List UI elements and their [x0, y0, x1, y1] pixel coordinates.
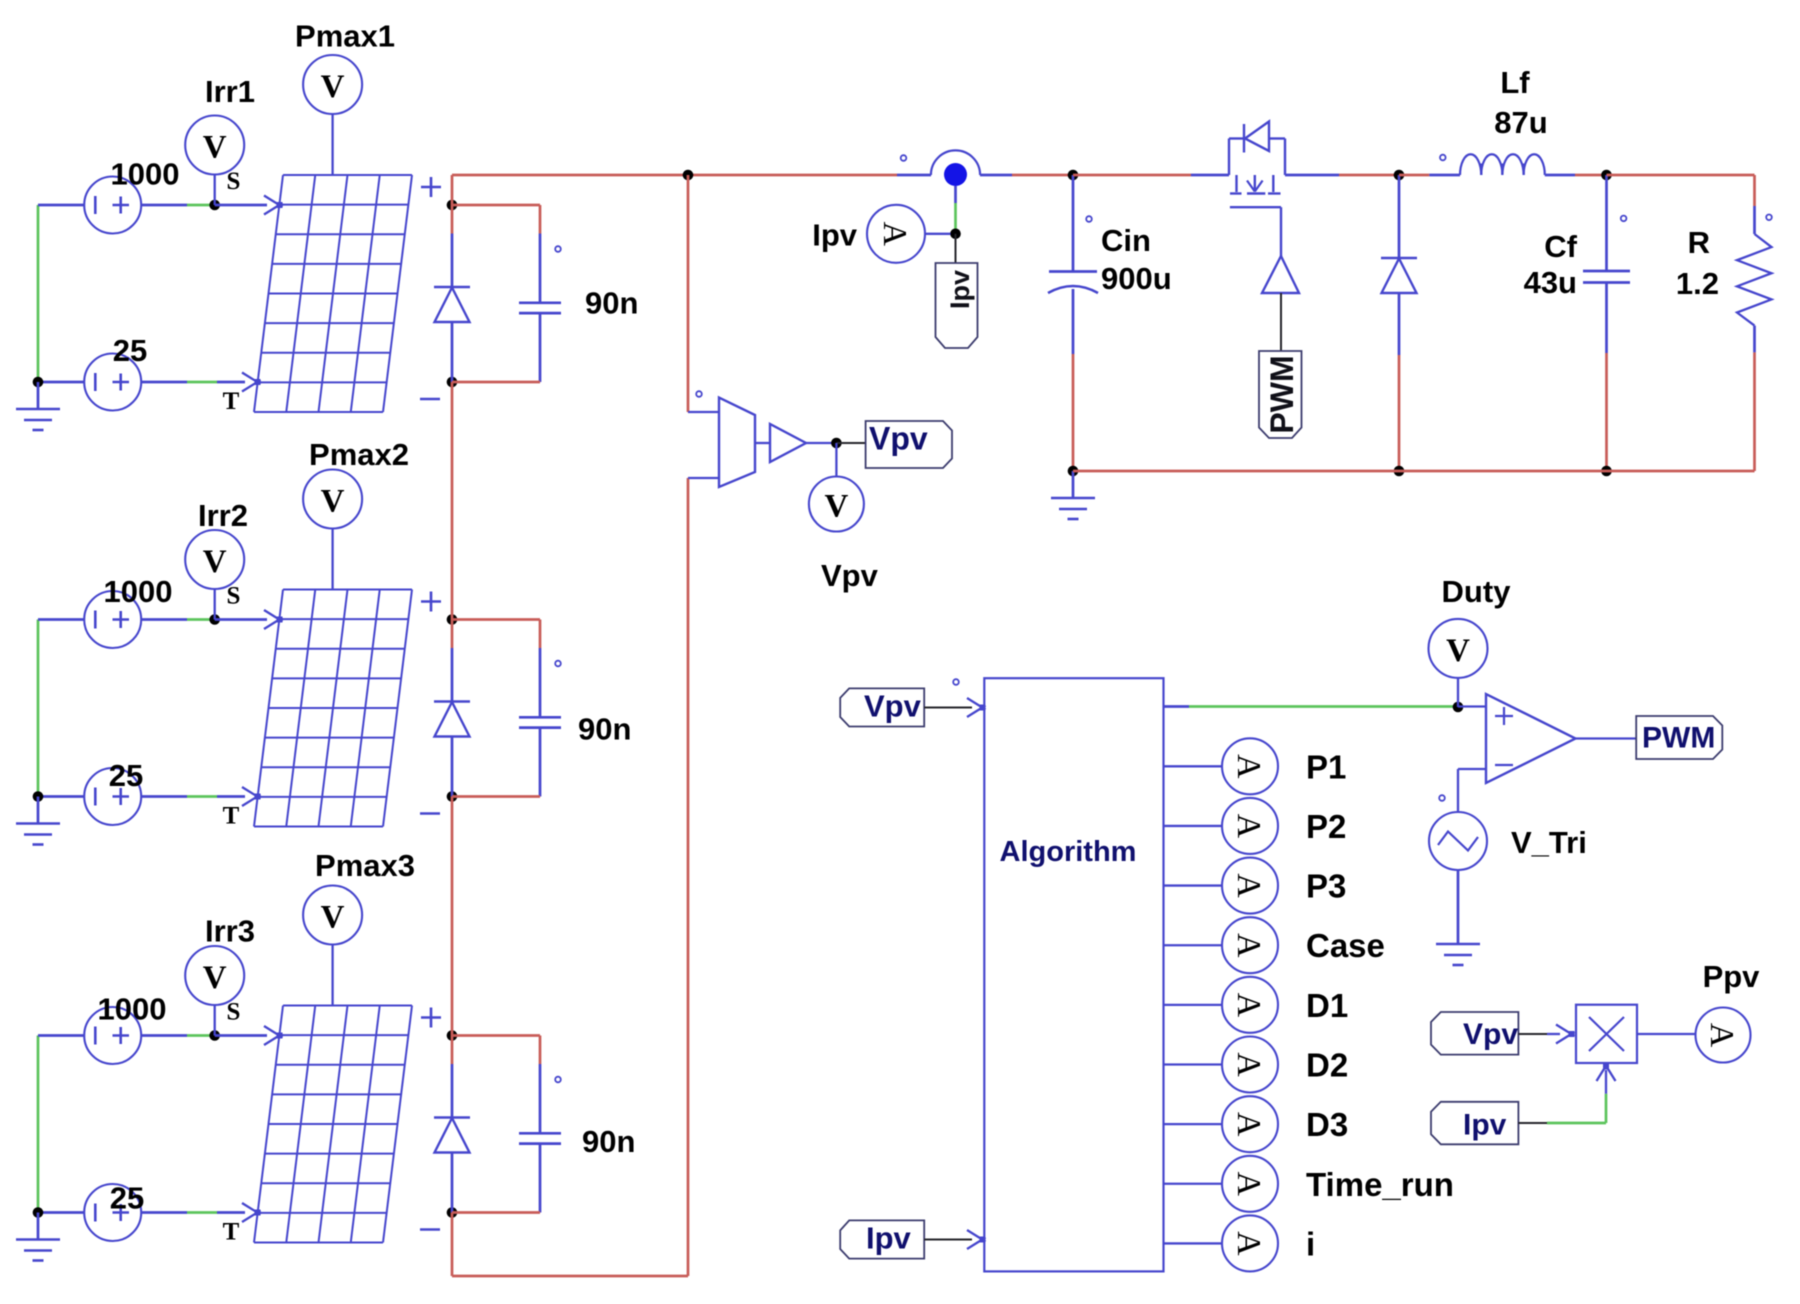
svg-text:Case: Case — [1306, 927, 1385, 964]
label Lf — [1500, 65, 1530, 100]
value label 900u — [1101, 261, 1172, 296]
net label tag Vpv (sense) — [866, 421, 952, 469]
label Pmax1 — [295, 19, 395, 54]
input tag Ipv (to Algorithm) — [840, 1220, 924, 1258]
wire (bus junction down to Vpv probe) — [687, 175, 690, 412]
pin arrow S input (PV2) — [264, 610, 283, 629]
svg-text:Cin: Cin — [1101, 223, 1151, 258]
label Ipv (ammeter) — [812, 218, 858, 253]
wire (source to node S, PV1) — [141, 204, 215, 207]
svg-text:Ipv: Ipv — [1463, 1109, 1507, 1142]
voltage probe Vpv (differential) — [688, 398, 770, 487]
wire (sensor to Cin node) — [980, 174, 1073, 177]
svg-text:Pmax2: Pmax2 — [309, 437, 409, 472]
svg-text:900u: 900u — [1101, 261, 1172, 296]
svg-text:90n: 90n — [585, 286, 638, 321]
wire (source to panel T, PV1) — [141, 381, 245, 384]
pin arrow multiplier in — [1556, 1025, 1575, 1044]
svg-text:Vpv: Vpv — [869, 421, 928, 457]
svg-text:A: A — [1703, 1023, 1740, 1048]
wire (dc bus: PV string to sensor) — [452, 174, 931, 177]
wire (Ipv tag to multiplier) — [1518, 1070, 1606, 1123]
voltmeter Irr1 — [185, 116, 244, 206]
freewheeling diode D1 — [1381, 175, 1417, 471]
wire (sensor tap down) — [954, 186, 957, 234]
label Vpv (meter) — [821, 558, 879, 593]
probe Case — [1222, 917, 1278, 973]
pin label S (PV3) — [227, 999, 241, 1026]
svg-text:T: T — [223, 803, 240, 830]
wire (diode node to Lf) — [1399, 174, 1460, 177]
capacitor 90n (PV1) — [519, 234, 561, 383]
wire (node S to panel, PV3) — [215, 1034, 267, 1037]
svg-text:A: A — [1230, 754, 1267, 779]
svg-text:Pmax1: Pmax1 — [295, 19, 395, 54]
marker (PV1 cap) — [555, 246, 561, 252]
wire (capacitor to PV1-) — [452, 381, 540, 384]
svg-text:A: A — [1230, 1171, 1267, 1196]
svg-text:1.2: 1.2 — [1676, 266, 1719, 301]
svg-text:Cf: Cf — [1544, 229, 1577, 264]
value label 43u — [1524, 265, 1577, 300]
node sensor tap — [950, 229, 961, 240]
voltmeter Irr2 — [185, 530, 244, 620]
svg-text:25: 25 — [109, 758, 143, 793]
wire (panel to voltmeter Pmax1) — [331, 115, 333, 176]
svg-text:V: V — [824, 489, 848, 525]
svg-text:V_Tri: V_Tri — [1511, 825, 1587, 860]
pin arrow S input (PV1) — [264, 196, 283, 215]
marker (sensor) — [901, 155, 907, 161]
probe D2 — [1222, 1037, 1278, 1093]
wire (probe stub Case) — [1164, 944, 1223, 946]
current source 1000 (irradiance S, PV3) — [84, 1007, 141, 1064]
marker (R) — [1766, 215, 1772, 221]
node PV2- — [447, 791, 458, 802]
probe D1 — [1222, 977, 1278, 1033]
wire (node to Vpv tag) — [836, 442, 865, 444]
node Vpv sense — [831, 438, 842, 449]
bypass diode D_pv2 — [434, 620, 470, 797]
polarity - (PV3) — [420, 1228, 440, 1231]
label Ppv — [1703, 959, 1761, 994]
svg-text:D1: D1 — [1306, 987, 1348, 1024]
wire (Lf to Cf node) — [1575, 174, 1607, 177]
polarity + (PV3) — [421, 1008, 441, 1028]
PV panel module 1 — [254, 175, 412, 412]
wire (Ipv tag to block) — [924, 1239, 972, 1241]
node diode bottom — [1394, 466, 1405, 477]
svg-text:25: 25 — [110, 1181, 144, 1216]
ground (PV1) — [16, 377, 60, 430]
node Cf top — [1601, 170, 1612, 181]
svg-text:V: V — [321, 69, 345, 105]
wire (PV1+ to capacitor) — [452, 205, 540, 234]
wire (probe stub D2) — [1164, 1063, 1223, 1065]
gate driver buffer (on-gate) — [1262, 256, 1299, 293]
current source 1000 (irradiance S, PV1) — [84, 177, 141, 234]
svg-text:1000: 1000 — [98, 992, 167, 1027]
net label tag PWM (vertical) — [1259, 351, 1302, 438]
label P1 — [1306, 748, 1346, 785]
inductor Lf 87u — [1460, 154, 1575, 175]
label D3 — [1306, 1106, 1348, 1143]
wire (amp out) — [806, 442, 836, 444]
pin label T (PV1) — [223, 388, 240, 415]
label D2 — [1306, 1047, 1348, 1084]
wire (V_Tri to ground) — [1457, 870, 1460, 917]
svg-text:Irr1: Irr1 — [205, 74, 255, 109]
value label 1000 (PV2) — [104, 574, 173, 609]
svg-text:1000: 1000 — [104, 574, 173, 609]
bypass diode D_pv3 — [434, 1036, 470, 1213]
svg-text:Vpv: Vpv — [1463, 1018, 1518, 1051]
svg-text:43u: 43u — [1524, 265, 1577, 300]
label Pmax2 — [309, 437, 409, 472]
pin arrow T input (PV3) — [242, 1203, 261, 1222]
capacitor 90n (PV3) — [519, 1064, 561, 1213]
pin arrow T input (PV2) — [242, 787, 261, 806]
value label 1.2 — [1676, 266, 1719, 301]
svg-text:S: S — [227, 583, 241, 610]
label Irr2 — [198, 498, 248, 533]
label Cin — [1101, 223, 1151, 258]
value label 25 (PV2) — [109, 758, 143, 793]
ground (V_Tri) — [1436, 917, 1480, 965]
label D1 — [1306, 987, 1348, 1024]
wire (PV3- return to sense bus) — [452, 1213, 688, 1277]
voltmeter Pmax1 — [303, 55, 362, 114]
label Time_run — [1306, 1166, 1454, 1203]
svg-text:V: V — [321, 484, 345, 520]
voltmeter Pmax2 — [303, 470, 362, 529]
input tag Vpv (to multiplier) — [1431, 1012, 1518, 1055]
svg-text:R: R — [1688, 225, 1710, 260]
wire (Vpv tag to multiplier) — [1518, 1033, 1560, 1035]
wire (gate to PWM label) — [1280, 293, 1282, 351]
capacitor Cf 43u — [1583, 175, 1630, 471]
wire (probe stub P2) — [1164, 825, 1223, 827]
probe P2 — [1222, 798, 1278, 854]
pin arrow Ipv input — [967, 1230, 986, 1249]
svg-text:A: A — [1230, 1231, 1267, 1256]
wire (panel to voltmeter Pmax2) — [331, 529, 333, 590]
marker (Cf) — [1621, 216, 1627, 222]
wire (PV2- to PV3+ series link) — [451, 797, 454, 1036]
value label 87u — [1494, 105, 1547, 140]
svg-text:T: T — [223, 1219, 240, 1246]
sensor gain amp — [770, 424, 806, 462]
probe P1 — [1222, 738, 1278, 794]
wire (node S to panel, PV2) — [215, 618, 267, 621]
svg-text:Irr3: Irr3 — [205, 914, 255, 949]
svg-text:A: A — [1230, 933, 1267, 958]
node Cin top — [1068, 170, 1079, 181]
svg-text:A: A — [1230, 873, 1267, 898]
svg-text:V: V — [203, 544, 227, 580]
wire (tap to Ipv label) — [955, 234, 957, 263]
svg-text:V: V — [321, 900, 345, 936]
svg-text:Vpv: Vpv — [864, 689, 922, 724]
svg-text:V: V — [203, 960, 227, 996]
svg-text:PWM: PWM — [1264, 355, 1300, 433]
output tag PWM — [1636, 716, 1722, 759]
wire (PV1+ up to dc bus) — [451, 175, 454, 205]
marker (Algorithm in) — [953, 679, 959, 685]
ground (PV2) — [16, 791, 60, 844]
wire (source to panel T, PV3) — [141, 1211, 245, 1214]
input tag Vpv (to Algorithm) — [840, 688, 924, 726]
label Irr1 — [205, 74, 255, 109]
svg-text:90n: 90n — [582, 1124, 635, 1159]
svg-text:i: i — [1306, 1225, 1315, 1262]
polarity + (PV1) — [421, 177, 441, 197]
label i — [1306, 1225, 1315, 1262]
polarity - (PV2) — [420, 812, 440, 815]
svg-text:Irr2: Irr2 — [198, 498, 248, 533]
wire (panel to voltmeter Pmax3) — [331, 945, 333, 1006]
marker (V_Tri) — [1439, 795, 1445, 801]
value label 25 (PV1) — [113, 333, 147, 368]
svg-text:P1: P1 — [1306, 748, 1346, 785]
current source 25 (temperature T, PV1) — [84, 354, 141, 411]
label P3 — [1306, 868, 1346, 905]
wire (node S to panel, PV1) — [215, 204, 267, 207]
ammeter Ipv — [867, 205, 951, 263]
value label 25 (PV3) — [110, 1181, 144, 1216]
wire (comparator out) — [1576, 737, 1637, 739]
svg-text:Ppv: Ppv — [1703, 959, 1761, 994]
svg-text:S: S — [227, 999, 241, 1026]
label P2 — [1306, 808, 1346, 845]
current source 1000 (irradiance S, PV2) — [84, 591, 141, 648]
svg-text:V: V — [1446, 633, 1470, 669]
probe Ppv — [1696, 1008, 1751, 1063]
bypass diode D_pv1 — [434, 205, 470, 382]
wire (source to node S, PV3) — [141, 1034, 215, 1037]
node PV3- — [447, 1207, 458, 1218]
svg-text:1000: 1000 — [111, 157, 180, 192]
svg-text:Lf: Lf — [1500, 65, 1530, 100]
wire (probe stub Time_run) — [1164, 1183, 1223, 1185]
wire (source to node S, PV2) — [141, 618, 215, 621]
svg-text:A: A — [1230, 814, 1267, 839]
polarity - (PV1) — [420, 398, 440, 401]
label V_Tri — [1511, 825, 1587, 860]
polarity + (PV2) — [421, 592, 441, 612]
node Cin bottom — [1068, 466, 1079, 477]
PV panel module 2 — [254, 590, 412, 827]
current source 25 (temperature T, PV3) — [84, 1184, 141, 1241]
wire (duty output of Algorithm) — [1164, 705, 1459, 708]
marker (PV3 cap) — [555, 1077, 561, 1083]
source V_Tri (triangle carrier) — [1429, 812, 1487, 870]
svg-text:Vpv: Vpv — [821, 558, 879, 593]
probe P3 — [1222, 858, 1278, 914]
voltmeter Pmax3 — [303, 886, 362, 945]
pin label T (PV2) — [223, 803, 240, 830]
wire (probe stub i) — [1164, 1242, 1223, 1244]
marker (PV2 cap) — [555, 661, 561, 667]
wire (node to voltmeter) — [835, 443, 837, 477]
wire (PV1- to PV2+ series link) — [451, 382, 454, 620]
wire (PV2+ to capacitor) — [452, 620, 540, 649]
wire (multiplier out) — [1637, 1033, 1696, 1035]
capacitor Cin 900u (electrolytic) — [1048, 175, 1098, 471]
svg-text:D2: D2 — [1306, 1047, 1348, 1084]
resistor R 1.2 — [1737, 206, 1772, 471]
svg-text:A: A — [1230, 1112, 1267, 1137]
ground (Cin) — [1051, 471, 1095, 519]
node bus junction x688 — [683, 170, 694, 181]
svg-text:V: V — [203, 130, 227, 166]
voltmeter Vpv — [809, 477, 864, 532]
svg-text:A: A — [876, 222, 913, 247]
node PV3+ — [447, 1030, 458, 1041]
marker (Vpv probe) — [696, 391, 702, 397]
wire (capacitor to PV3-) — [452, 1211, 540, 1214]
wire (capacitor to PV2-) — [452, 795, 540, 798]
probe i — [1222, 1215, 1278, 1271]
probe Time_run — [1222, 1156, 1278, 1212]
wire (source to panel T, PV2) — [141, 795, 245, 798]
svg-text:A: A — [1230, 1052, 1267, 1077]
value label 1000 (PV3) — [98, 992, 167, 1027]
label Case — [1306, 927, 1385, 964]
capacitor 90n (PV2) — [519, 648, 561, 797]
svg-text:87u: 87u — [1494, 105, 1547, 140]
svg-text:Time_run: Time_run — [1306, 1166, 1454, 1203]
wire (Cin node to MOSFET) — [1073, 174, 1191, 177]
wire (left return, PV1) — [38, 205, 85, 382]
wire (Vpv tag to block) — [924, 707, 972, 709]
pin label T (PV3) — [223, 1219, 240, 1246]
current source 25 (temperature T, PV2) — [84, 768, 141, 825]
svg-text:Duty: Duty — [1442, 574, 1512, 609]
marker (Lf) — [1440, 155, 1446, 161]
wire (bottom return bus) — [1073, 470, 1755, 473]
svg-text:T: T — [223, 388, 240, 415]
node PV1- — [447, 377, 458, 388]
probe D3 — [1222, 1096, 1278, 1152]
voltmeter Irr3 — [185, 946, 244, 1036]
pin label S (PV2) — [227, 583, 241, 610]
svg-text:Ipv: Ipv — [812, 218, 858, 253]
node PV2+ — [447, 614, 458, 625]
pin arrow Vpv input — [967, 698, 986, 717]
wire (Vpv probe lower to string return) — [687, 478, 690, 1276]
svg-text:Ipv: Ipv — [866, 1221, 912, 1256]
wire (comparator - input) — [1458, 769, 1486, 812]
input tag Ipv (to multiplier) — [1431, 1102, 1518, 1145]
ground (PV3) — [16, 1207, 60, 1260]
wire (probe stub D1) — [1164, 1004, 1223, 1006]
svg-text:A: A — [1230, 993, 1267, 1018]
svg-text:Algorithm: Algorithm — [1000, 836, 1137, 868]
voltmeter Duty — [1429, 619, 1488, 707]
block Algorithm — [984, 678, 1163, 1271]
node S junction (PV3) — [209, 1030, 220, 1041]
wire (probe stub D3) — [1164, 1123, 1223, 1125]
node Cf bottom — [1601, 466, 1612, 477]
wire (left return, PV2) — [38, 620, 85, 797]
value label 90n (PV3) — [582, 1124, 635, 1159]
multiplier X1 — [1576, 1005, 1637, 1063]
wire (Cf node to R) — [1607, 175, 1755, 206]
svg-text:90n: 90n — [578, 712, 631, 747]
value label 90n (PV2) — [578, 712, 631, 747]
pin label S (PV1) — [227, 168, 241, 195]
svg-text:Ipv: Ipv — [945, 270, 975, 309]
svg-text:D3: D3 — [1306, 1106, 1348, 1143]
node S junction (PV2) — [209, 614, 220, 625]
node duty — [1453, 702, 1464, 713]
node switch-diode — [1394, 170, 1405, 181]
label Pmax3 — [315, 848, 415, 883]
svg-text:S: S — [227, 168, 241, 195]
pin arrow multiplier bottom in — [1597, 1063, 1616, 1082]
label Duty — [1442, 574, 1512, 609]
label Cf — [1544, 229, 1577, 264]
wire (left return, PV3) — [38, 1036, 85, 1213]
node PV1+ — [447, 200, 458, 211]
marker (Cin) — [1086, 216, 1092, 222]
pin arrow T input (PV1) — [242, 373, 261, 392]
net label tag Ipv (vertical) — [936, 263, 978, 348]
svg-text:PWM: PWM — [1642, 722, 1715, 755]
wire (probe stub P3) — [1164, 884, 1223, 886]
wire (duty node to comparator +) — [1458, 705, 1486, 707]
label Irr3 — [205, 914, 255, 949]
wire (PV3+ to capacitor) — [452, 1036, 540, 1065]
wire (probe stub P1) — [1164, 765, 1223, 767]
svg-text:P2: P2 — [1306, 808, 1346, 845]
comparator U1 — [1486, 694, 1576, 783]
svg-text:Pmax3: Pmax3 — [315, 848, 415, 883]
MOSFET Q1 (with body diode) — [1191, 122, 1339, 257]
svg-text:P3: P3 — [1306, 868, 1346, 905]
pin arrow S input (PV3) — [264, 1026, 283, 1045]
node S junction (PV1) — [209, 200, 220, 211]
PV panel module 3 — [254, 1006, 412, 1243]
current sensor Ipv (flag) — [931, 150, 980, 186]
wire (MOSFET to diode node) — [1339, 174, 1398, 177]
value label 1000 (PV1) — [111, 157, 180, 192]
value label 90n (PV1) — [585, 286, 638, 321]
label R — [1688, 225, 1710, 260]
svg-text:25: 25 — [113, 333, 147, 368]
